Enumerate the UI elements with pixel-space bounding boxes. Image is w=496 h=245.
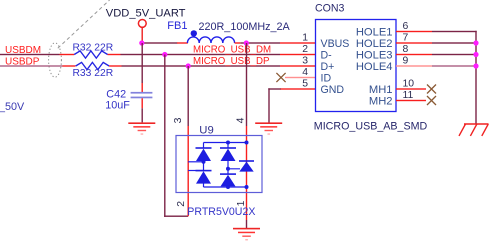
U9 pin number 2 (rotated) <box>176 201 187 207</box>
wire HOLE1 to right bus <box>432 31 477 32</box>
svg-text:3: 3 <box>173 117 184 123</box>
svg-text:220R_100MHz_2A: 220R_100MHz_2A <box>199 21 291 33</box>
wire MICRO_USB_DM <box>121 54 281 55</box>
op label U9 <box>199 125 213 137</box>
wire power drop <box>142 27 143 43</box>
wire VBUS row to pin stub <box>240 42 280 43</box>
U9 internal mid links <box>204 161 241 174</box>
wire GND to ground <box>268 88 280 122</box>
svg-text:MICRO_USB_DP: MICRO_USB_DP <box>193 56 269 67</box>
junction DM to U9 pin2 <box>162 52 167 57</box>
wire VBUS row maroon segment <box>142 42 178 43</box>
net label MICRO_USB_DM <box>193 44 271 55</box>
no-connect X on MH1 <box>427 85 436 94</box>
U9 pin number 3 (rotated) <box>173 117 184 123</box>
label R33 22R <box>73 68 114 79</box>
svg-text:4: 4 <box>302 67 308 78</box>
pin name HOLE4 <box>356 61 393 73</box>
svg-text:HOLE2: HOLE2 <box>356 38 393 50</box>
part value PRTR5V0U2X <box>187 206 255 218</box>
wire right vertical to chassis ground <box>475 31 476 124</box>
pin name HOLE2 <box>356 38 393 50</box>
resistor R33 left lead <box>63 65 76 66</box>
diode D2 top-right <box>220 147 236 161</box>
svg-text:11: 11 <box>403 90 414 101</box>
pin name HOLE1 <box>356 26 393 38</box>
pin number 4 <box>302 67 308 78</box>
svg-text:6: 6 <box>403 21 409 32</box>
svg-text:VDD_5V_UART: VDD_5V_UART <box>106 8 186 20</box>
cut-off note text _50V <box>0 101 25 113</box>
junction HOLE4 <box>473 63 478 68</box>
svg-text:_50V: _50V <box>0 101 25 113</box>
pin name MH2 <box>369 95 393 107</box>
svg-text:HOLE4: HOLE4 <box>356 61 393 73</box>
svg-text:MICRO_USB_AB_SMD: MICRO_USB_AB_SMD <box>314 121 428 133</box>
power port VDD_5V_UART label <box>106 8 186 20</box>
wire USBDP left <box>0 65 63 66</box>
chassis ground (right) <box>459 124 489 136</box>
pin number 8 <box>403 44 409 55</box>
callout dashed leader line <box>58 0 110 48</box>
svg-text:10uF: 10uF <box>105 100 130 112</box>
pin number 9 <box>403 55 409 66</box>
pin 5 stub (GND) <box>280 88 316 89</box>
wire FB1 left lead <box>177 42 188 43</box>
pin 4 stub (ID) <box>285 77 316 78</box>
pin number 5 <box>302 78 308 89</box>
resistor R32 right lead <box>108 54 121 55</box>
resistor R32 left lead <box>60 54 75 55</box>
U9 internal junction dots <box>202 141 249 190</box>
svg-text:2: 2 <box>176 201 187 207</box>
label FB1 <box>167 20 187 32</box>
U9 internal pin2 link <box>188 170 203 172</box>
svg-text:CON3: CON3 <box>315 3 345 15</box>
pin number 3 <box>302 55 308 66</box>
svg-text:7: 7 <box>403 32 409 43</box>
pin 9 stub <box>396 65 432 66</box>
svg-text:5: 5 <box>302 78 308 89</box>
svg-text:FB1: FB1 <box>167 20 187 32</box>
pin number 1 <box>302 32 308 43</box>
pin 8 stub <box>396 54 432 55</box>
pin 2 stub <box>280 54 316 55</box>
pin name GND <box>321 84 345 96</box>
esd array U9 box <box>176 136 262 193</box>
wire U9 pin1 to ground <box>246 220 247 228</box>
value 10uF <box>105 100 130 112</box>
pin 7 stub <box>396 42 432 43</box>
pin number 6 <box>403 21 409 32</box>
svg-text:MICRO_USB_DM: MICRO_USB_DM <box>193 44 271 55</box>
value 220R_100MHz_2A <box>199 21 291 33</box>
pin 10 stub <box>396 88 426 89</box>
svg-text:D+: D+ <box>321 61 335 73</box>
label C42 <box>106 89 126 101</box>
pin 1 stub <box>280 42 316 43</box>
svg-text:HOLE3: HOLE3 <box>356 49 393 61</box>
ground (GND pin5) <box>255 122 282 134</box>
part value MICRO_USB_AB_SMD <box>314 121 428 133</box>
wire HOLE4 to right bus <box>432 65 477 66</box>
U9 pin number 1 (rotated) <box>236 200 247 206</box>
diode D1 top-left <box>196 147 212 161</box>
capacitor C42 upper wire <box>142 43 143 92</box>
pin name D+ <box>321 61 335 73</box>
svg-text:MH1: MH1 <box>369 84 393 96</box>
connector CON3 box <box>316 20 397 112</box>
zener D5 right <box>239 160 254 171</box>
pin name ID <box>321 72 332 84</box>
U9 internal VCC rail <box>204 143 247 148</box>
svg-text:ID: ID <box>321 72 332 84</box>
net label USBDP <box>5 57 40 68</box>
svg-text:1: 1 <box>302 32 308 43</box>
junction power node <box>139 40 144 45</box>
resistor R32 zigzag <box>74 51 107 58</box>
svg-text:PRTR5V0U2X: PRTR5V0U2X <box>187 206 255 218</box>
junction DP to U9 pin3 <box>186 63 191 68</box>
U9 pin 4 lead <box>246 126 247 220</box>
wire DP drop to U9 pin 3 <box>188 66 189 126</box>
diode D4 bottom-right <box>220 173 236 186</box>
resistor R33 right lead <box>109 65 121 66</box>
pin number 10 <box>403 78 415 89</box>
svg-text:10: 10 <box>403 78 415 89</box>
pin name D- <box>321 49 333 61</box>
net label USBDM <box>5 45 41 56</box>
diode D3 bottom-left <box>196 170 212 184</box>
ground (C42) <box>128 122 155 134</box>
U9 pin 3 lead <box>188 126 189 216</box>
net label MICRO_USB_DP <box>193 56 269 67</box>
wire VBUS drop to U9 pin 4 <box>246 43 247 126</box>
wire FB1 right lead <box>235 42 241 43</box>
pin number 11 <box>403 90 414 101</box>
svg-text:4: 4 <box>235 117 246 123</box>
resistor R33 zigzag <box>76 62 109 69</box>
pin 6 stub <box>396 31 432 32</box>
junction HOLE2 <box>473 40 478 45</box>
svg-text:8: 8 <box>403 44 409 55</box>
ferrite bead FB1 arcs <box>187 37 234 43</box>
svg-text:3: 3 <box>302 55 308 66</box>
ferrite bead FB1 pin-1 dot <box>191 30 197 36</box>
wire DM drop to U9 pin 2 <box>164 55 188 217</box>
no-connect X on ID pin <box>276 73 285 82</box>
svg-text:9: 9 <box>403 55 409 66</box>
junction VBUS to U9 pin4 <box>244 40 249 45</box>
pin number 2 <box>302 44 308 55</box>
pin name MH1 <box>369 84 393 96</box>
wire USBDM left <box>0 54 60 55</box>
wire MICRO_USB_DP <box>122 65 281 66</box>
label R32 22R <box>73 42 114 53</box>
capacitor C42 plates <box>131 92 153 98</box>
pin 3 stub <box>280 65 316 66</box>
callout dotted ellipse <box>49 43 62 77</box>
svg-text:R33 22R: R33 22R <box>73 68 114 79</box>
wire HOLE2 to right bus <box>432 42 477 43</box>
pin 11 stub <box>396 100 426 101</box>
U9 pin number 4 (rotated) <box>235 117 246 123</box>
pin number 7 <box>403 32 409 43</box>
svg-text:MH2: MH2 <box>369 95 393 107</box>
svg-text:D-: D- <box>321 49 333 61</box>
svg-text:VBUS: VBUS <box>321 38 350 50</box>
U9 internal GND rail <box>204 184 247 188</box>
svg-text:U9: U9 <box>199 125 213 137</box>
power port circle <box>138 20 146 28</box>
svg-text:HOLE1: HOLE1 <box>356 26 393 38</box>
ground (U9 pin1) <box>233 228 260 241</box>
capacitor C42 lower wire <box>142 98 143 122</box>
no-connect X on MH2 <box>427 96 436 105</box>
U9 internal pin3 link <box>188 161 203 163</box>
pin name VBUS <box>321 38 350 50</box>
refdes CON3 <box>315 3 345 15</box>
svg-text:R32 22R: R32 22R <box>73 42 114 53</box>
svg-text:GND: GND <box>321 84 345 96</box>
wire HOLE3 to right bus <box>432 54 477 55</box>
pin name HOLE3 <box>356 49 393 61</box>
svg-text:2: 2 <box>302 44 308 55</box>
junction HOLE3 <box>473 52 478 57</box>
